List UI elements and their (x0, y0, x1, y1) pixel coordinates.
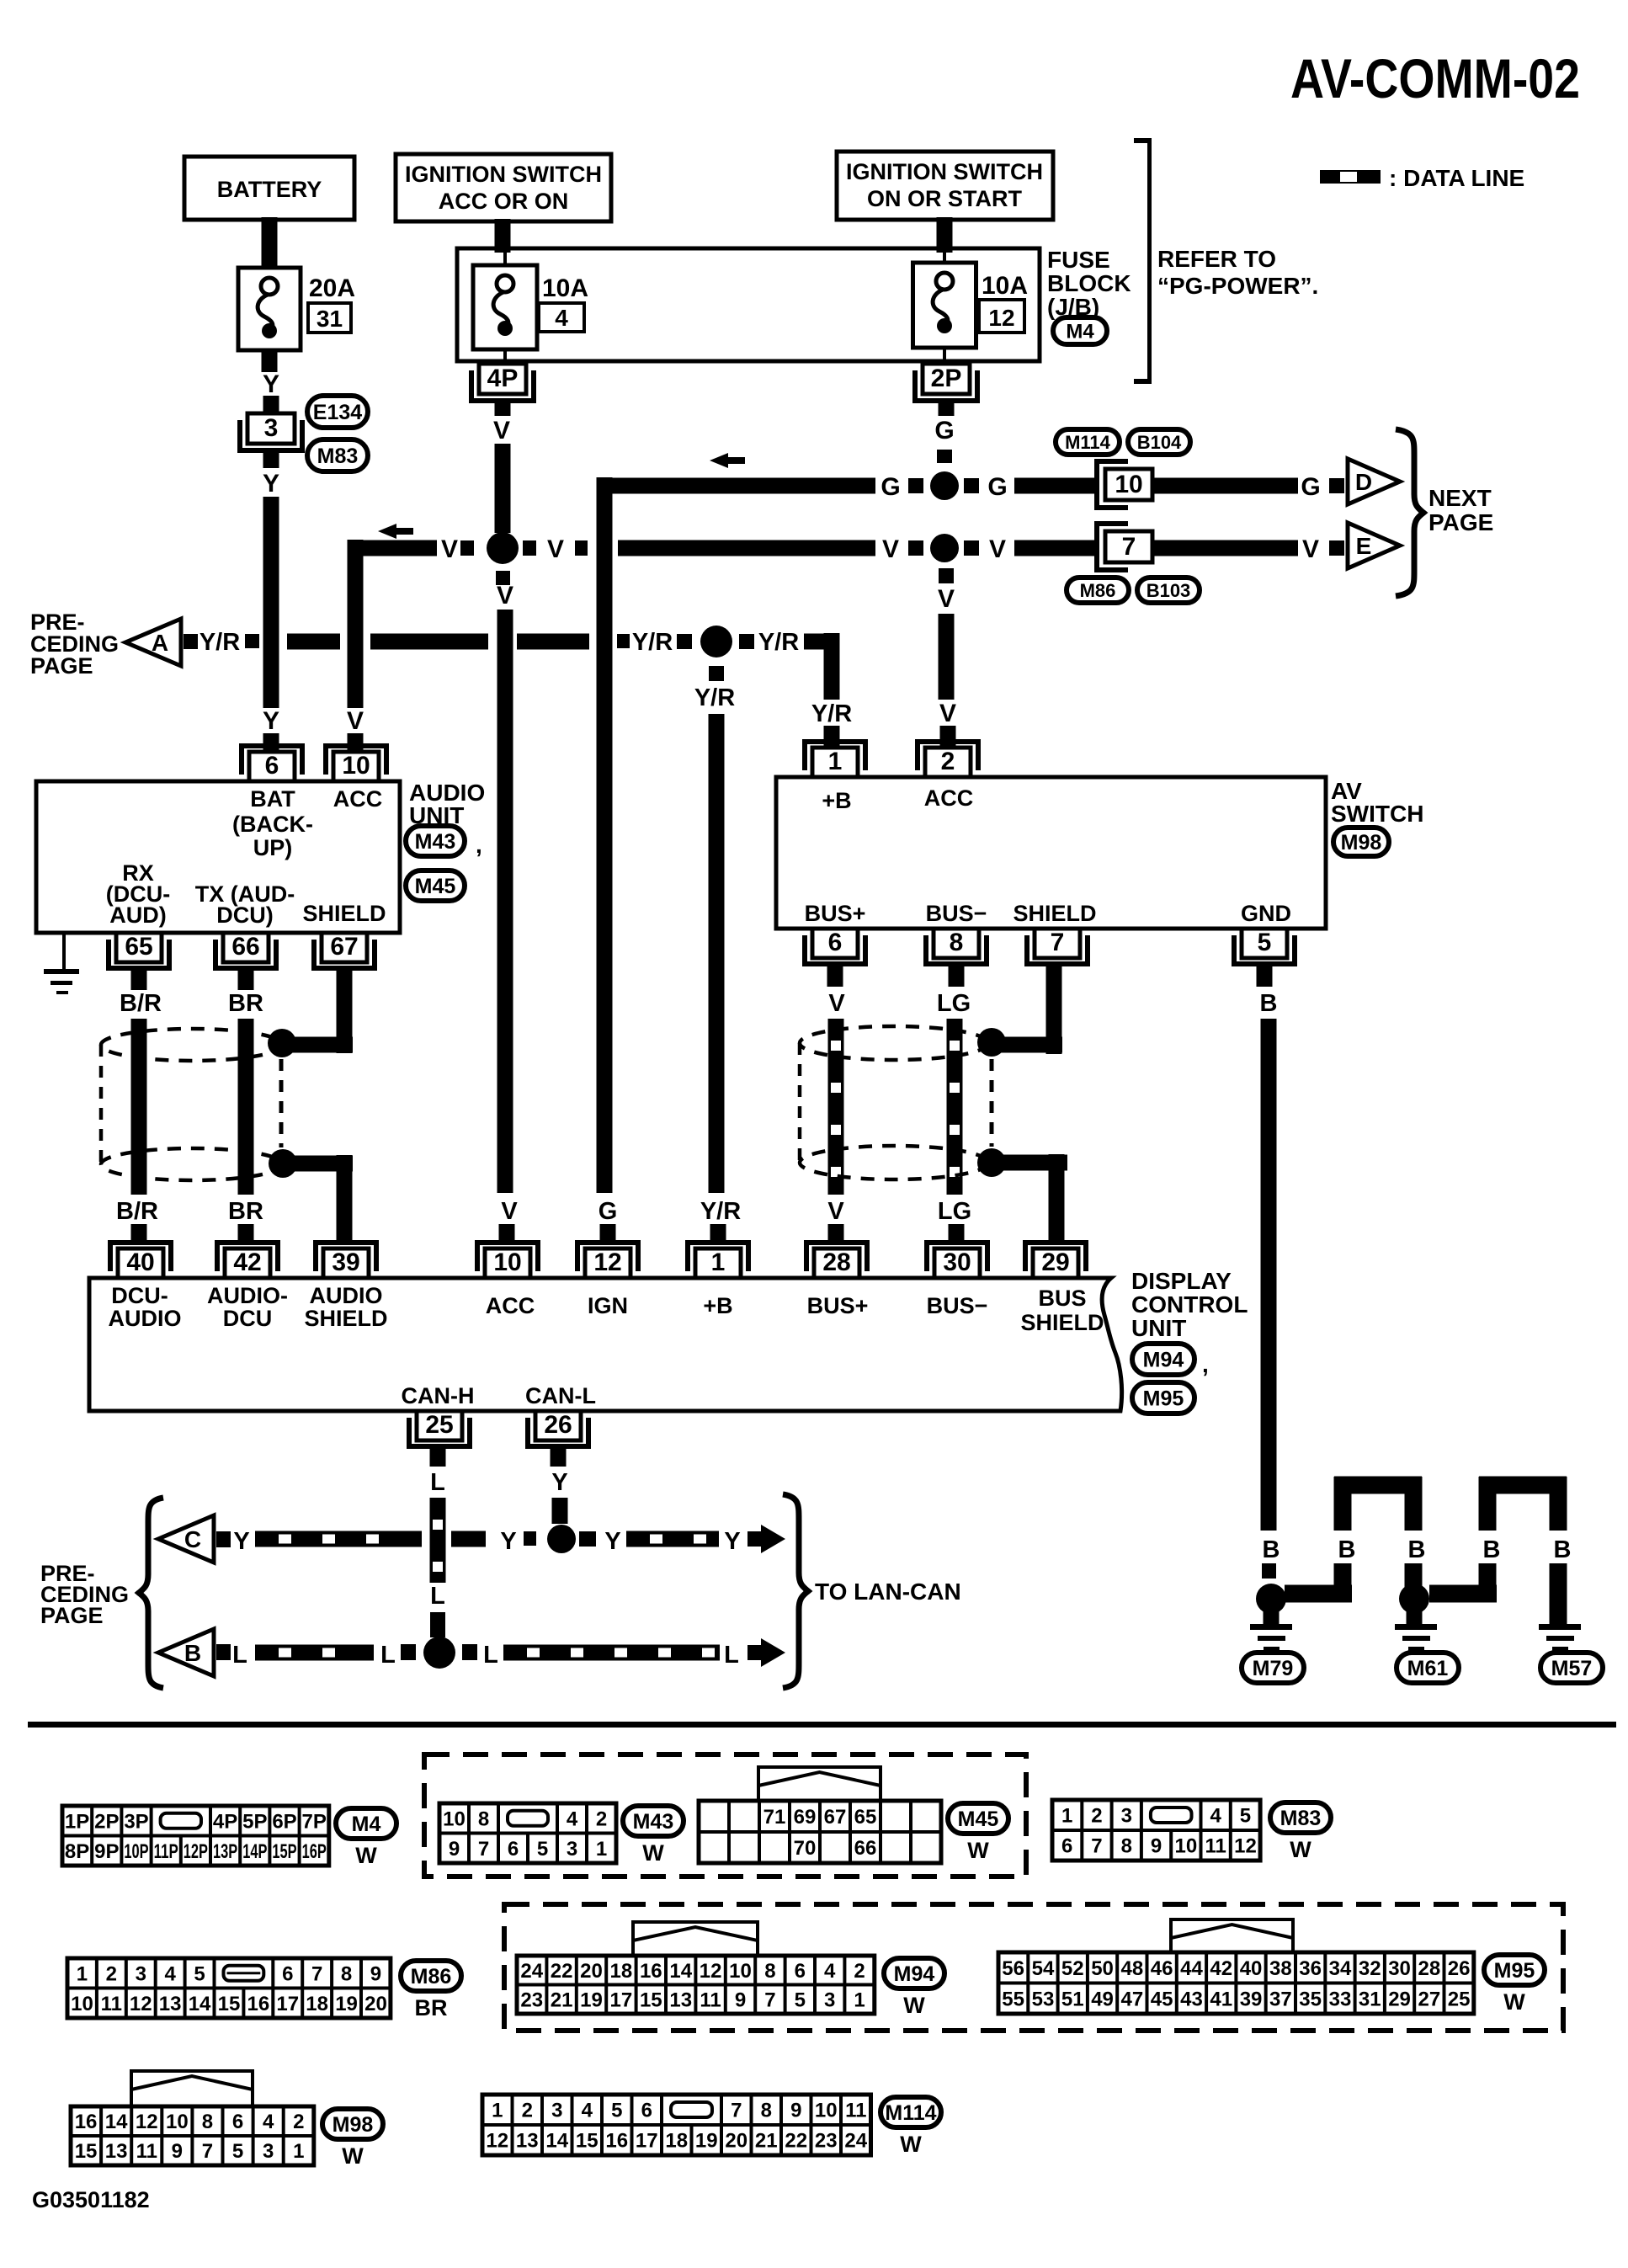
svg-text:6: 6 (265, 752, 279, 780)
svg-text:11: 11 (136, 2140, 157, 2163)
svg-text:15: 15 (218, 1993, 241, 2015)
svg-text:W: W (900, 2132, 922, 2157)
svg-text:UNIT: UNIT (1131, 1315, 1186, 1341)
svg-text:25: 25 (425, 1411, 453, 1439)
svg-text:18: 18 (306, 1993, 328, 2015)
svg-text:36: 36 (1299, 1957, 1322, 1980)
svg-text:14: 14 (669, 1960, 692, 1983)
svg-text:9: 9 (735, 1988, 746, 2011)
svg-text:69: 69 (794, 1806, 817, 1829)
svg-text:11: 11 (700, 1988, 721, 2011)
svg-text:BAT: BAT (250, 786, 295, 812)
svg-text:3: 3 (567, 1838, 577, 1861)
svg-text:Y/R: Y/R (758, 629, 799, 656)
svg-text:DISPLAY: DISPLAY (1131, 1268, 1232, 1294)
svg-text:ON OR START: ON OR START (867, 186, 1022, 211)
svg-text:10: 10 (443, 1807, 466, 1830)
svg-text:16: 16 (640, 1960, 662, 1983)
svg-text:16: 16 (247, 1993, 269, 2015)
svg-text:W: W (1503, 1989, 1525, 2015)
svg-text:L: L (483, 1642, 498, 1669)
svg-text:M57: M57 (1551, 1657, 1593, 1680)
svg-text:20: 20 (580, 1960, 603, 1983)
svg-text:7: 7 (1122, 533, 1136, 561)
svg-text:10A: 10A (982, 272, 1028, 300)
svg-text:17: 17 (636, 2130, 658, 2153)
svg-text:BR: BR (228, 990, 263, 1017)
svg-text:M98: M98 (1341, 831, 1382, 854)
svg-text:10A: 10A (542, 274, 588, 302)
svg-text:3: 3 (264, 414, 279, 442)
svg-text:9: 9 (172, 2140, 183, 2163)
svg-text:15P: 15P (272, 1840, 296, 1863)
svg-text:G03501182: G03501182 (32, 2187, 150, 2212)
svg-text:70: 70 (794, 1837, 817, 1860)
svg-text:11: 11 (101, 1993, 122, 2015)
svg-text:67: 67 (330, 933, 358, 961)
svg-text:10: 10 (1174, 1835, 1197, 1858)
svg-text:M114: M114 (1065, 432, 1111, 453)
svg-text:71: 71 (763, 1806, 786, 1829)
svg-text:Y: Y (263, 370, 279, 398)
svg-text:SHIELD: SHIELD (304, 1306, 387, 1331)
svg-text:6: 6 (795, 1960, 806, 1983)
svg-text:26: 26 (544, 1411, 572, 1439)
svg-text:M98: M98 (333, 2113, 374, 2137)
svg-text:E134: E134 (313, 401, 362, 424)
svg-text:“PG-POWER”.: “PG-POWER”. (1157, 273, 1318, 299)
svg-text:TO LAN-CAN: TO LAN-CAN (815, 1579, 961, 1605)
svg-text:32: 32 (1359, 1957, 1381, 1980)
svg-text:12: 12 (593, 1248, 621, 1276)
svg-text:B: B (1260, 990, 1278, 1017)
svg-text:2P: 2P (931, 365, 962, 392)
svg-text:22: 22 (785, 2130, 807, 2153)
svg-text:12: 12 (130, 1993, 152, 2015)
svg-text:48: 48 (1120, 1957, 1143, 1980)
svg-text:A: A (152, 630, 168, 656)
svg-text:13P: 13P (213, 1840, 237, 1863)
svg-text:Y: Y (263, 707, 279, 735)
svg-text:14: 14 (189, 1993, 211, 2015)
svg-text:12: 12 (486, 2130, 508, 2153)
svg-text:G: G (599, 1198, 618, 1225)
svg-text:5: 5 (611, 2100, 622, 2122)
svg-text:7: 7 (311, 1962, 322, 1985)
svg-text:5: 5 (795, 1988, 806, 2011)
svg-text:23: 23 (520, 1988, 543, 2011)
svg-text:1: 1 (77, 1962, 88, 1985)
svg-text:6: 6 (232, 2111, 243, 2133)
svg-text:8: 8 (950, 929, 964, 956)
svg-text:V: V (827, 1198, 844, 1225)
svg-text:IGNITION SWITCH: IGNITION SWITCH (846, 159, 1043, 184)
svg-text:52: 52 (1061, 1957, 1084, 1980)
svg-text:12: 12 (988, 305, 1014, 331)
svg-text:23: 23 (815, 2130, 838, 2153)
svg-text:2: 2 (106, 1962, 117, 1985)
svg-text:BUS: BUS (1038, 1286, 1086, 1311)
svg-text:11: 11 (1205, 1835, 1226, 1858)
svg-text:AUDIO: AUDIO (109, 1306, 182, 1331)
svg-text:47: 47 (1120, 1988, 1143, 2010)
svg-text:B: B (1263, 1536, 1280, 1563)
svg-text:12P: 12P (184, 1840, 208, 1863)
svg-text:30: 30 (1388, 1957, 1411, 1980)
svg-text:10: 10 (1115, 471, 1142, 498)
svg-text:M79: M79 (1253, 1657, 1294, 1680)
svg-text:BR: BR (415, 1995, 448, 2020)
svg-text:34: 34 (1329, 1957, 1352, 1980)
svg-text:21: 21 (551, 1988, 573, 2011)
svg-text:14P: 14P (242, 1840, 267, 1863)
svg-text:W: W (642, 1840, 664, 1866)
svg-text:66: 66 (854, 1837, 877, 1860)
svg-text:7: 7 (1051, 929, 1065, 956)
svg-text:,: , (1202, 1351, 1209, 1377)
svg-text:1P: 1P (65, 1810, 89, 1833)
svg-text:4P: 4P (213, 1810, 237, 1833)
svg-text:ACC: ACC (333, 786, 383, 812)
svg-text:6: 6 (828, 929, 843, 956)
svg-text:16: 16 (605, 2130, 628, 2153)
svg-text:4P: 4P (487, 365, 519, 392)
svg-text:19: 19 (695, 2130, 718, 2153)
svg-text:GND: GND (1241, 901, 1291, 926)
svg-text:M43: M43 (633, 1810, 674, 1834)
svg-text:B/R: B/R (120, 990, 162, 1017)
svg-text:9: 9 (1151, 1835, 1162, 1858)
svg-text:G: G (881, 473, 900, 501)
svg-text:38: 38 (1269, 1957, 1292, 1980)
svg-text:ACC OR ON: ACC OR ON (439, 189, 569, 214)
svg-text:NEXT: NEXT (1428, 485, 1492, 511)
svg-text:LG: LG (938, 1198, 971, 1225)
svg-text:PAGE: PAGE (30, 653, 93, 679)
svg-text:45: 45 (1151, 1988, 1173, 2010)
svg-text:DCU): DCU) (216, 902, 274, 928)
svg-text:ACC: ACC (924, 785, 974, 811)
svg-text:ACC: ACC (486, 1293, 535, 1318)
svg-text:M4: M4 (352, 1813, 381, 1836)
svg-text:2: 2 (293, 2111, 304, 2133)
svg-text:39: 39 (332, 1248, 359, 1276)
svg-text:M61: M61 (1407, 1657, 1449, 1680)
svg-text:BUS−: BUS− (927, 1293, 988, 1318)
svg-text:8: 8 (764, 1960, 775, 1983)
svg-text:W: W (355, 1843, 377, 1868)
svg-text:Y/R: Y/R (200, 629, 240, 656)
svg-text:2: 2 (596, 1807, 607, 1830)
svg-text:7: 7 (202, 2140, 213, 2163)
svg-text:5P: 5P (242, 1810, 267, 1833)
svg-text:Y: Y (604, 1528, 620, 1555)
svg-text:24: 24 (844, 2130, 867, 2153)
svg-text:8: 8 (341, 1962, 352, 1985)
svg-text:B103: B103 (1147, 580, 1191, 601)
svg-text:3: 3 (1121, 1805, 1132, 1828)
svg-text:DCU-: DCU- (111, 1283, 168, 1308)
svg-text:17: 17 (610, 1988, 633, 2011)
svg-text:Y/R: Y/R (700, 1198, 741, 1225)
svg-text:V: V (1302, 535, 1319, 563)
svg-text:65: 65 (125, 933, 152, 961)
svg-text:65: 65 (854, 1806, 877, 1829)
svg-text:REFER TO: REFER TO (1157, 246, 1276, 272)
svg-text:W: W (903, 1993, 925, 2018)
svg-text:1: 1 (1061, 1805, 1072, 1828)
svg-text:16: 16 (75, 2111, 98, 2133)
svg-text:14: 14 (105, 2111, 128, 2133)
svg-text:28: 28 (822, 1248, 850, 1276)
svg-text:4: 4 (582, 2100, 593, 2122)
svg-text:4: 4 (555, 305, 568, 331)
svg-text:L: L (232, 1642, 247, 1669)
svg-text:7: 7 (731, 2100, 742, 2122)
svg-text:L: L (430, 1583, 445, 1610)
svg-text:37: 37 (1269, 1988, 1292, 2010)
svg-text:9: 9 (370, 1962, 381, 1985)
svg-text:V: V (939, 700, 956, 727)
svg-text:31: 31 (317, 306, 343, 332)
svg-text:12: 12 (1234, 1835, 1257, 1858)
svg-text:54: 54 (1032, 1957, 1055, 1980)
svg-text:24: 24 (520, 1960, 543, 1983)
svg-text:M95: M95 (1143, 1387, 1184, 1411)
svg-text:15: 15 (640, 1988, 662, 2011)
svg-text:7: 7 (478, 1838, 489, 1861)
svg-text:V: V (441, 535, 458, 563)
svg-text:V: V (501, 1198, 518, 1225)
svg-text:G: G (1301, 473, 1320, 501)
svg-text:Y: Y (724, 1528, 740, 1555)
svg-text:Y/R: Y/R (694, 684, 735, 711)
svg-text:Y/R: Y/R (632, 629, 673, 656)
svg-text:1: 1 (293, 2140, 304, 2163)
svg-text:Y: Y (233, 1528, 249, 1555)
svg-text:CAN-L: CAN-L (525, 1383, 596, 1408)
svg-text:B104: B104 (1137, 432, 1182, 453)
svg-text:42: 42 (233, 1248, 261, 1276)
svg-text:19: 19 (580, 1988, 603, 2011)
svg-text:20: 20 (364, 1993, 387, 2015)
svg-text:B: B (1408, 1536, 1426, 1563)
svg-text:9P: 9P (94, 1840, 119, 1863)
svg-text:30: 30 (943, 1248, 971, 1276)
svg-text:2: 2 (854, 1960, 865, 1983)
svg-text:Y/R: Y/R (811, 700, 852, 727)
svg-text:2P: 2P (94, 1810, 119, 1833)
svg-text:4: 4 (567, 1807, 578, 1830)
svg-text:8: 8 (478, 1807, 489, 1830)
svg-text:M45: M45 (415, 875, 456, 898)
svg-text:3: 3 (824, 1988, 835, 2011)
svg-text:6: 6 (641, 2100, 652, 2122)
svg-text:5: 5 (537, 1838, 548, 1861)
svg-text:W: W (1290, 1837, 1311, 1862)
svg-text:V: V (882, 535, 899, 563)
svg-text:BUS+: BUS+ (807, 1293, 869, 1318)
svg-text:D: D (1355, 469, 1372, 495)
svg-text:+B: +B (703, 1293, 732, 1318)
svg-text:CAN-H: CAN-H (402, 1383, 475, 1408)
svg-text:Y: Y (551, 1469, 567, 1496)
svg-text:66: 66 (231, 933, 259, 961)
svg-text:15: 15 (576, 2130, 599, 2153)
svg-text:51: 51 (1061, 1988, 1084, 2010)
svg-text:V: V (497, 582, 513, 610)
svg-text:40: 40 (126, 1248, 154, 1276)
svg-text:56: 56 (1002, 1957, 1024, 1980)
svg-text:5: 5 (232, 2140, 243, 2163)
svg-text:49: 49 (1091, 1988, 1114, 2010)
svg-text:18: 18 (610, 1960, 633, 1983)
svg-text:L: L (724, 1642, 739, 1669)
svg-text:AV-COMM-02: AV-COMM-02 (1290, 47, 1580, 109)
svg-text:10P: 10P (124, 1840, 148, 1863)
svg-text:3: 3 (263, 2140, 274, 2163)
svg-text:4: 4 (263, 2111, 274, 2133)
svg-text:5: 5 (1240, 1805, 1251, 1828)
svg-text:29: 29 (1388, 1988, 1411, 2010)
svg-text:AUDIO-: AUDIO- (207, 1283, 288, 1308)
svg-text:10: 10 (493, 1248, 521, 1276)
svg-text:19: 19 (335, 1993, 358, 2015)
svg-text:V: V (547, 535, 564, 563)
svg-text:AUD): AUD) (109, 902, 167, 928)
svg-text:4: 4 (824, 1960, 836, 1983)
svg-text:1: 1 (854, 1988, 865, 2011)
svg-text:V: V (347, 707, 364, 735)
svg-text:BATTERY: BATTERY (217, 177, 322, 202)
svg-text:6: 6 (508, 1838, 519, 1861)
svg-text:E: E (1356, 533, 1372, 559)
svg-text:,: , (476, 832, 482, 858)
svg-text:8P: 8P (65, 1840, 89, 1863)
svg-text:13: 13 (105, 2140, 128, 2163)
svg-text:: DATA LINE: : DATA LINE (1389, 165, 1524, 191)
svg-text:C: C (184, 1526, 201, 1552)
svg-text:20A: 20A (309, 274, 355, 302)
svg-text:M43: M43 (415, 830, 456, 854)
svg-text:M4: M4 (1066, 321, 1094, 343)
svg-text:1: 1 (492, 2100, 503, 2122)
svg-text:6P: 6P (272, 1810, 296, 1833)
svg-text:5: 5 (194, 1962, 205, 1985)
svg-text:1: 1 (828, 748, 843, 775)
svg-text:3: 3 (136, 1962, 146, 1985)
svg-text:44: 44 (1180, 1957, 1203, 1980)
svg-text:M86: M86 (1080, 580, 1116, 601)
svg-text:7P: 7P (302, 1810, 327, 1833)
svg-text:M83: M83 (317, 445, 359, 468)
svg-text:3: 3 (551, 2100, 562, 2122)
svg-text:13: 13 (516, 2130, 539, 2153)
svg-text:17: 17 (276, 1993, 299, 2015)
svg-text:2: 2 (522, 2100, 533, 2122)
svg-text:PAGE: PAGE (40, 1603, 104, 1628)
svg-text:M83: M83 (1280, 1807, 1322, 1830)
svg-text:SWITCH: SWITCH (1331, 801, 1423, 827)
svg-text:5: 5 (1258, 929, 1272, 956)
svg-text:12: 12 (136, 2111, 158, 2133)
svg-text:M95: M95 (1494, 1959, 1535, 1983)
svg-text:8: 8 (761, 2100, 772, 2122)
svg-text:G: G (934, 417, 954, 445)
svg-text:BLOCK: BLOCK (1047, 270, 1131, 296)
svg-text:4: 4 (164, 1962, 176, 1985)
svg-text:PAGE: PAGE (1428, 509, 1493, 535)
svg-text:25: 25 (1448, 1988, 1471, 2010)
svg-text:1: 1 (711, 1248, 726, 1276)
svg-text:67: 67 (824, 1806, 847, 1829)
svg-text:V: V (493, 417, 510, 445)
svg-text:1: 1 (596, 1838, 607, 1861)
svg-text:SHIELD: SHIELD (1013, 901, 1096, 926)
svg-text:7: 7 (1091, 1835, 1102, 1858)
svg-text:BUS−: BUS− (926, 901, 987, 926)
svg-text:29: 29 (1041, 1248, 1069, 1276)
svg-text:IGN: IGN (588, 1293, 628, 1318)
svg-text:10: 10 (729, 1960, 752, 1983)
svg-text:G: G (987, 473, 1007, 501)
svg-text:B: B (184, 1640, 201, 1666)
svg-text:9: 9 (449, 1838, 460, 1861)
svg-text:3P: 3P (124, 1810, 148, 1833)
svg-text:BR: BR (228, 1198, 263, 1225)
svg-text:11: 11 (845, 2100, 866, 2122)
svg-text:L: L (430, 1469, 445, 1496)
svg-text:BUS+: BUS+ (805, 901, 866, 926)
svg-text:B/R: B/R (116, 1198, 158, 1225)
svg-text:13: 13 (159, 1993, 182, 2015)
svg-text:22: 22 (551, 1960, 573, 1983)
svg-text:M94: M94 (894, 1962, 935, 1986)
svg-text:6: 6 (282, 1962, 293, 1985)
svg-text:M86: M86 (411, 1965, 452, 1988)
svg-text:9: 9 (790, 2100, 801, 2122)
svg-text:FUSE: FUSE (1047, 247, 1110, 273)
svg-text:B: B (1338, 1536, 1356, 1563)
svg-text:40: 40 (1240, 1957, 1263, 1980)
svg-text:14: 14 (545, 2130, 568, 2153)
svg-text:M114: M114 (885, 2101, 936, 2125)
svg-text:13: 13 (669, 1988, 692, 2011)
svg-text:CONTROL: CONTROL (1131, 1291, 1248, 1318)
svg-text:W: W (967, 1838, 989, 1863)
svg-text:8: 8 (202, 2111, 213, 2133)
svg-text:35: 35 (1299, 1988, 1322, 2010)
svg-text:V: V (828, 990, 845, 1017)
svg-text:2: 2 (941, 748, 955, 775)
svg-text:10: 10 (342, 752, 370, 780)
svg-text:AUDIO: AUDIO (310, 1283, 383, 1308)
svg-text:Y: Y (263, 470, 279, 498)
svg-text:16P: 16P (302, 1840, 327, 1863)
svg-text:6: 6 (1061, 1835, 1072, 1858)
svg-text:L: L (380, 1642, 396, 1669)
svg-text:8: 8 (1121, 1835, 1132, 1858)
svg-text:31: 31 (1359, 1988, 1381, 2010)
svg-text:46: 46 (1151, 1957, 1173, 1980)
svg-text:V: V (938, 585, 955, 613)
svg-text:21: 21 (755, 2130, 778, 2153)
svg-text:M45: M45 (958, 1807, 999, 1831)
svg-text:M94: M94 (1143, 1349, 1184, 1372)
svg-text:SHIELD: SHIELD (302, 901, 386, 926)
svg-text:DCU: DCU (223, 1306, 273, 1331)
svg-text:27: 27 (1418, 1988, 1440, 2010)
